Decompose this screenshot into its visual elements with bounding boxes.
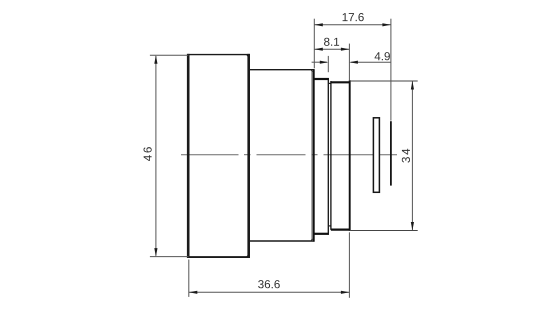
label 4.9	[375, 52, 390, 60]
label 17.6	[343, 13, 364, 21]
lens main body (front barrel)	[187, 54, 250, 258]
ring 2	[331, 80, 351, 231]
groove	[328, 83, 331, 226]
label 8.1	[324, 38, 339, 46]
centerline	[181, 154, 397, 156]
dimension 46	[150, 55, 189, 256]
dimension 17.6	[314, 19, 391, 121]
label 34 (rotated)	[402, 149, 410, 163]
body corner chamfers	[247, 55, 313, 257]
dimension 4.9	[312, 56, 391, 72]
rear glass surface line	[390, 121, 392, 185]
label 46 (rotated)	[144, 147, 152, 161]
label 36.6	[258, 280, 280, 288]
dimension 36.6	[189, 232, 350, 297]
dimension 8.1	[315, 44, 350, 80]
mid barrel	[250, 69, 315, 241]
rear mount bottom edge (also extension for 34)	[351, 230, 418, 232]
rear mount top edge (also extension for 34)	[351, 80, 418, 82]
ring 1	[315, 78, 329, 235]
dimension 34	[411, 81, 413, 230]
rear glass element (outlined)	[373, 118, 379, 193]
